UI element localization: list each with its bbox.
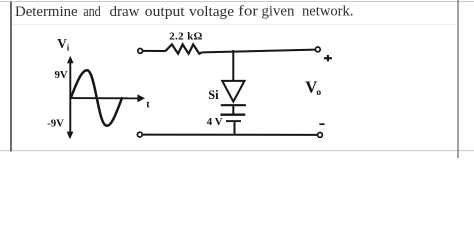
terminal bottom-right — [318, 133, 323, 138]
svg-text:network.: network. — [302, 3, 354, 19]
input sine wave — [71, 70, 123, 126]
battery 4V short plate — [226, 120, 241, 122]
svg-text:for: for — [238, 4, 258, 20]
svg-text:9V: 9V — [54, 69, 67, 81]
wire diode to battery — [232, 106, 234, 114]
node Vi label — [57, 36, 70, 52]
terminal bottom-left — [137, 132, 142, 137]
wire resistor to top-right terminal — [202, 50, 316, 53]
svg-text:voltage: voltage — [189, 4, 234, 20]
wire battery to bottom rail — [234, 122, 236, 135]
svg-text:-9V: -9V — [47, 117, 64, 129]
svg-text:o: o — [316, 88, 321, 98]
svg-text:Si: Si — [208, 88, 219, 102]
minus sign — [319, 123, 324, 125]
output Vo label — [305, 77, 321, 98]
svg-text:given: given — [262, 4, 295, 20]
title text — [15, 3, 354, 20]
wire top-left to resistor — [143, 50, 166, 52]
svg-text:V: V — [57, 36, 67, 51]
Vi vertical axis — [67, 56, 74, 140]
terminal top-right — [315, 47, 320, 52]
terminal top-left — [138, 49, 143, 54]
wire junction down to diode — [232, 50, 234, 81]
svg-text:2.2 kΩ: 2.2 kΩ — [169, 30, 203, 42]
plus sign — [324, 55, 332, 62]
bottom rail wire — [142, 134, 317, 136]
diode cathode bar — [221, 104, 246, 106]
resistor 2.2k zigzag — [166, 44, 202, 53]
svg-text:output: output — [145, 4, 185, 20]
svg-text:4 V: 4 V — [207, 116, 223, 128]
svg-text:Determine: Determine — [15, 4, 78, 20]
svg-text:t: t — [146, 99, 150, 110]
svg-text:draw: draw — [110, 4, 141, 20]
diode D1 triangle — [222, 81, 244, 102]
svg-text:and: and — [83, 4, 101, 20]
battery 4V long plate — [221, 113, 246, 115]
t axis — [70, 94, 145, 102]
cell borders (frame) — [0, 1, 474, 3]
